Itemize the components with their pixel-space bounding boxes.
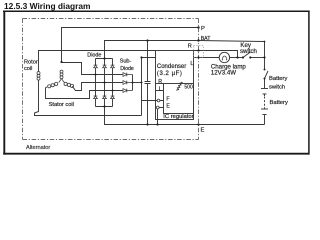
wire: rotor top lead to regulator box [39, 51, 156, 72]
svg-text:coil: coil [24, 66, 32, 72]
stator coil left arm [48, 82, 58, 88]
wire: battery bottom to ground wire [264, 115, 266, 125]
stator coil right arm [64, 82, 74, 87]
svg-text:switch: switch [240, 48, 257, 55]
charge lamp [219, 52, 229, 62]
svg-text:Rotor: Rotor [24, 60, 38, 66]
junction: E drop on ground [156, 123, 158, 125]
wire: R terminal to key switch [194, 51, 238, 58]
wire: key switch to battery node [250, 57, 264, 59]
resistor 500 zigzag [176, 82, 182, 90]
wire: battery switch to battery [264, 79, 266, 89]
junction: condenser top on BAT rail [146, 39, 148, 41]
wire: battery node down to battery switch [264, 58, 266, 70]
diode D2 top [103, 65, 107, 68]
svg-text:500: 500 [184, 84, 193, 90]
condenser leads [147, 41, 149, 125]
wire: F pin wire [142, 100, 164, 102]
junction: phase2 - column2 [104, 82, 106, 84]
wire: BAT rail from diode top rail [105, 41, 199, 59]
svg-text:Sub-: Sub- [120, 59, 132, 65]
junction: phase3 - column3 [112, 90, 114, 92]
diode D1 top [94, 65, 98, 68]
wire: phase3 left arm to col3 / sub-diode3 [46, 87, 123, 99]
svg-text:IC regulator: IC regulator [163, 114, 193, 120]
svg-text:Battery: Battery [270, 100, 288, 106]
svg-text:E: E [201, 128, 205, 134]
svg-text:Alternator: Alternator [26, 145, 50, 151]
diode column 1 [95, 59, 97, 107]
wire: sub-diode output tap [133, 82, 142, 84]
junction: diode negative rail [103, 105, 105, 107]
svg-text:switch: switch [269, 84, 285, 90]
condenser plates [145, 82, 151, 84]
svg-text:Diode: Diode [120, 66, 134, 72]
svg-text:R: R [188, 44, 192, 50]
rotor coil [37, 72, 40, 81]
wire: BAT to battery node [199, 41, 265, 58]
terminal L [197, 56, 199, 58]
wire: E pin wire and drop [158, 108, 164, 125]
diode D6 bottom [111, 96, 115, 99]
diode column 2 [104, 59, 106, 107]
IC regulator box [164, 84, 194, 114]
wire: P from stator top node [62, 28, 199, 63]
junction: stator top node / P tap [60, 61, 62, 63]
sub-diode output bar [132, 75, 134, 91]
svg-text:Stator coil: Stator coil [49, 102, 74, 108]
diode column 3 [112, 59, 114, 107]
diode top rail [96, 58, 113, 60]
R pin stub [156, 83, 164, 85]
svg-text:Condenser: Condenser [157, 64, 186, 70]
battery switch contact bottom [264, 78, 266, 80]
junction: L-node vertical [141, 82, 143, 84]
svg-text:Battery: Battery [269, 76, 287, 82]
junction: battery node [263, 56, 265, 58]
sub-diode SD1 [123, 73, 133, 77]
L pin stub [156, 90, 164, 92]
battery switch contact top [264, 69, 266, 71]
pin circle F [157, 99, 160, 102]
svg-text:L: L [190, 61, 193, 67]
diode D4 bottom [94, 96, 98, 99]
key switch contact left [242, 56, 244, 58]
key switch contact right [249, 56, 251, 58]
terminal P [197, 26, 199, 28]
wire: ground wire from bottom rail to battery [105, 107, 265, 125]
junction: BAT wire corner [264, 41, 266, 43]
diode bottom rail [96, 106, 113, 108]
wire: L-node vertical into regulator box [142, 58, 156, 83]
pin circle E [156, 106, 159, 109]
wire: charge lamp to key switch contact [230, 57, 243, 59]
svg-text:Diode: Diode [87, 52, 101, 58]
R/L terminal connector (dashed) [194, 46, 204, 58]
junction: sub-diode output [132, 82, 134, 84]
svg-text:12V3.4W: 12V3.4W [211, 69, 236, 76]
junction: condenser bottom on ground [146, 123, 148, 125]
svg-text:E: E [166, 104, 170, 110]
page frame [3, 11, 310, 155]
battery switch blade [265, 71, 269, 79]
wire: phase1 to diode col1 / sub-diode1 [62, 63, 123, 75]
diode D5 bottom [103, 96, 107, 99]
terminal R [197, 49, 199, 51]
svg-text:12.5.3 Wiring diagram: 12.5.3 Wiring diagram [4, 1, 91, 11]
key switch blade [243, 52, 250, 58]
alternator boundary (dash-dot box) [23, 19, 199, 140]
svg-text:L: L [159, 86, 162, 92]
terminal BAT [197, 39, 199, 41]
wire: rotor bottom lead [35, 80, 142, 116]
regulator assembly box [156, 51, 194, 120]
wire: phase2 right arm to col2 / sub-diode2 [72, 83, 122, 91]
wire: L terminal to charge lamp [194, 57, 220, 59]
diode D3 top [111, 65, 115, 68]
sub-diode SD2 [123, 81, 133, 85]
sub-diode SD3 [123, 89, 133, 93]
wire: vertical rotor/F link [141, 84, 143, 116]
stator coil vertical winding [59, 70, 65, 82]
junction: phase1 - column1 [95, 74, 97, 76]
terminal E [197, 123, 199, 125]
battery [261, 89, 268, 115]
svg-text:R: R [158, 79, 162, 85]
svg-text:P: P [201, 26, 205, 32]
svg-text:(3.2 µF): (3.2 µF) [157, 71, 183, 77]
junction: R wire - lamp wire [236, 56, 238, 58]
svg-text:BAT: BAT [201, 36, 212, 42]
junction: diode positive rail [103, 57, 105, 59]
junction: L-node to regulator [140, 56, 142, 58]
